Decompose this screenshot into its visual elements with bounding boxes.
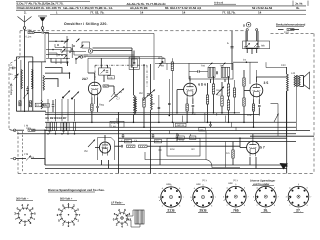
chassis dashed bottom	[18, 173, 314, 175]
boxed label C43	[178, 136, 184, 140]
svg-text:26.: 26.	[263, 208, 268, 212]
vertical x158.9	[158, 95, 160, 122]
wire IFT1 down right	[224, 79, 226, 82]
cap into dashed border	[9, 64, 16, 69]
table row2 text a	[17, 6, 62, 10]
resistor loop R1	[47, 122, 49, 131]
resistor mid	[143, 98, 145, 107]
variable capacitor C7b arrow	[143, 90, 156, 101]
resistor stack b	[221, 96, 223, 106]
switch arrows below tube V1	[62, 91, 79, 100]
socket S4	[158, 184, 184, 213]
grid pot arrow V4	[88, 140, 95, 148]
left resistor r1	[19, 101, 21, 106]
switch arm 6	[81, 45, 84, 48]
svg-text:6: 6	[179, 187, 181, 190]
svg-text:8: 8	[307, 204, 309, 207]
svg-text:3: 3	[253, 195, 255, 198]
svg-text:(1) y: (1) y	[202, 179, 208, 182]
svg-text:6: 6	[244, 187, 246, 190]
label C7 25	[117, 91, 123, 101]
vertical x225.7 drop	[225, 142, 227, 168]
svg-text:LF Føde -: LF Føde -	[111, 202, 123, 205]
tiny label above socket8	[228, 182, 234, 185]
svg-text:2: 2	[162, 204, 164, 207]
wire A1 down	[24, 29, 26, 112]
bus line y136.2	[250, 135, 314, 137]
gram wire 1	[16, 129, 24, 131]
chassis dashed left diagonal	[9, 58, 20, 65]
variable capacitor C7 arrow	[109, 89, 124, 102]
label resistor V5	[226, 152, 229, 155]
switch wire h1	[49, 40, 67, 42]
tube V2 grid wire	[177, 90, 184, 113]
AF component box	[167, 138, 200, 156]
svg-text:2'/m Om: 2'/m Om	[111, 122, 119, 125]
label Beskyttelsesmodstand	[276, 24, 306, 27]
label 43m	[150, 103, 155, 106]
switch arm 4	[64, 55, 68, 60]
svg-text:Reg: Reg	[99, 104, 104, 107]
cap C4 symbol	[52, 100, 55, 112]
cap drop C a	[122, 134, 125, 138]
gram terminal 1	[11, 129, 16, 131]
resistor loop R3b	[64, 122, 66, 131]
stair wire nest 2	[45, 68, 62, 74]
junction dot V2	[176, 112, 194, 114]
bottom caption underline	[48, 191, 95, 193]
wire power into chassis	[247, 49, 257, 53]
IFT1 trimmer 1	[209, 63, 213, 67]
osc nested box outer	[129, 57, 139, 69]
bus drop e	[216, 113, 218, 116]
speaker plug arrow	[280, 163, 289, 170]
wire plate V1 right	[109, 86, 114, 92]
svg-text:6: 6	[58, 207, 60, 211]
svg-text:6 D 6: 6 D 6	[198, 83, 206, 87]
antenna coupling cap C1	[34, 31, 49, 58]
svg-text:14: 14	[258, 10, 262, 14]
svg-text:2: 2	[227, 204, 229, 207]
svg-text:500 Volt +: 500 Volt +	[60, 198, 73, 201]
svg-text:0: 0	[17, 206, 19, 210]
boxed label C7b	[190, 136, 196, 140]
resistor stack e	[233, 80, 235, 113]
bus line y130.5	[45, 130, 310, 132]
cap on x158.9	[158, 107, 161, 108]
switch contact dots	[52, 40, 77, 59]
svg-text:2: 2	[289, 204, 291, 207]
table row2 text d	[165, 6, 202, 10]
labels R1 R2 R3 R4 R7	[45, 116, 78, 120]
svg-text:6: 6	[211, 187, 213, 190]
mains wires down	[247, 31, 257, 41]
wire below tube V1	[92, 104, 98, 122]
switch arrow right area	[274, 114, 279, 123]
chassis dashed top mid	[46, 30, 246, 32]
svg-text:6: 6	[307, 187, 309, 190]
label 1mk boxed	[108, 76, 115, 80]
tube V1 envelope	[88, 80, 101, 97]
switch wire v1	[66, 36, 68, 64]
boxed label 2m Om	[110, 118, 124, 128]
svg-text:3: 3	[223, 195, 225, 198]
svg-text:1: 1	[56, 10, 58, 14]
label LF Fode	[111, 202, 125, 205]
svg-text:1aL-4aL.7b 7.1 25x,50 75,2B 1: 1aL-4aL.7b 7.1 25x,50 75,2B 1L. 14.	[63, 6, 113, 10]
volume pot arrow Reg	[216, 87, 224, 96]
gram wire 2	[16, 156, 31, 161]
mains terminal 1	[246, 29, 248, 31]
svg-text:7 5: 7 5	[102, 146, 107, 150]
bus line y112.8	[45, 112, 240, 114]
vertical wire x133.5	[133, 67, 135, 122]
label Bolgeomk vertical	[10, 82, 13, 95]
svg-text:5: 5	[77, 207, 79, 211]
wires V3 left	[243, 70, 245, 122]
svg-text:7A8: 7A8	[220, 64, 225, 67]
boxed label CL left	[35, 103, 41, 107]
svg-text:R1 R2 R3 R4 R7: R1 R2 R3 R4 R7	[46, 116, 67, 120]
bottom caption main	[48, 188, 105, 192]
svg-text:7: 7	[15, 217, 17, 221]
socket S3 center	[121, 217, 124, 220]
svg-text:Ja. Nr.: Ja. Nr.	[295, 3, 303, 6]
label below V3	[247, 114, 252, 117]
tiny label above socket5	[233, 179, 239, 182]
svg-text:(1) y: (1) y	[233, 179, 239, 182]
svg-text:2: 2	[57, 213, 59, 217]
svg-text:2: 2	[257, 204, 259, 207]
IFT1 primary can	[208, 67, 215, 77]
label A-m	[192, 113, 196, 116]
svg-text:C.: C.	[121, 140, 124, 143]
svg-text:8: 8	[179, 204, 181, 207]
svg-text:L44: L44	[291, 72, 296, 75]
svg-text:0,1m: 0,1m	[29, 156, 34, 159]
IFT1 enclosure box	[189, 63, 233, 79]
wire gang bottom components	[56, 59, 76, 65]
svg-text:25.B: 25.B	[199, 209, 207, 213]
wires pot cluster	[208, 76, 229, 122]
table row3 text c	[140, 10, 144, 14]
svg-text:4M/C44: 4M/C44	[177, 124, 185, 127]
IFT1 input cap	[189, 70, 208, 73]
heater connect tube V4	[102, 160, 109, 169]
svg-text:2M: 2M	[84, 150, 87, 153]
chassis dashed left bottom seg	[17, 132, 19, 174]
antenna A2 symbol	[38, 16, 47, 27]
junction dots buses	[44, 112, 254, 139]
svg-text:7: 7	[79, 213, 81, 217]
label C above coupling b	[134, 140, 138, 143]
label tube V2 type 6D6	[198, 83, 206, 87]
svg-text:1: 1	[127, 223, 129, 227]
stair wire nest 3	[45, 73, 69, 79]
table row2 text c	[130, 6, 148, 10]
svg-text:3: 3	[14, 211, 16, 215]
socket S6 arrow	[224, 197, 229, 202]
switch contact dots mid	[61, 54, 70, 74]
wires R row top	[48, 99, 75, 121]
svg-text:1: 1	[33, 217, 35, 221]
label 4M osc	[161, 61, 164, 68]
socket S4 arrow	[159, 197, 164, 202]
wire to V5 grid	[160, 145, 240, 147]
vertical x118.5 long	[118, 112, 120, 174]
bus drop a	[168, 131, 170, 134]
label C10	[179, 139, 182, 142]
svg-text:3: 3	[286, 195, 288, 198]
coil block vertical wire a	[15, 57, 17, 111]
svg-text:1m: 1m	[226, 152, 229, 155]
wire V5 grid	[240, 138, 247, 147]
vertical wire x107.6	[104, 65, 108, 82]
cap drop from coupling	[159, 146, 162, 165]
bus drop d	[204, 113, 206, 123]
mains terminal 2	[256, 29, 258, 31]
wire top right vertical x258	[257, 31, 259, 46]
osc nested box inner	[131, 59, 137, 67]
boxed label Cm on bus	[199, 128, 205, 132]
cap C4 boxed label	[43, 104, 50, 108]
stair wire nest 4	[45, 79, 58, 87]
svg-text:C: C	[11, 64, 13, 67]
tube V3 envelope	[250, 82, 263, 99]
wire stub box to bus	[179, 134, 191, 142]
left trimmer arrow C2	[14, 74, 19, 81]
svg-text:2 mg: 2 mg	[111, 125, 117, 128]
osc coil L6	[134, 95, 136, 115]
trimmer above C7	[111, 92, 115, 97]
resistor x172	[171, 58, 173, 122]
junction x246 y62	[243, 59, 247, 64]
stair wire nest 1	[51, 58, 68, 66]
coil block top bus 2	[28, 61, 46, 63]
label C above coupling a	[121, 140, 124, 143]
svg-text:7: 7	[183, 196, 185, 199]
wire x144	[143, 64, 145, 127]
label 500 Volt	[60, 198, 77, 201]
table row3 text e	[222, 10, 236, 14]
cap on x232	[230, 47, 233, 48]
chassis dashed inner shield	[22, 131, 24, 172]
svg-text:100n: 100n	[26, 127, 32, 130]
socket S8	[286, 183, 313, 212]
svg-text:9h 10: 9h 10	[158, 57, 165, 60]
dial lamp L1	[88, 49, 92, 53]
osc coil L8	[151, 94, 153, 110]
resistor plug box at S3	[135, 210, 144, 224]
table header row text mid	[127, 2, 167, 6]
chassis dashed left upper	[19, 31, 21, 58]
joining wire caps	[246, 48, 258, 54]
label R32 in box	[192, 148, 196, 151]
wire V4 plate up	[104, 135, 106, 140]
svg-text:C40: C40	[281, 64, 286, 67]
resistor stack a	[206, 95, 208, 104]
tube V1 grid cap wire	[88, 73, 95, 80]
pilot lamp D	[243, 22, 251, 27]
resistor left of V5	[232, 142, 234, 166]
vertical x286.7 long	[286, 91, 288, 174]
svg-text:L8W: L8W	[196, 183, 202, 186]
switch wire h4	[46, 58, 70, 60]
bus line y133.8	[17, 133, 296, 135]
table row3 text f	[258, 10, 262, 14]
svg-text:2m: 2m	[243, 59, 246, 62]
table row2 text e	[252, 6, 300, 10]
svg-text:8: 8	[274, 204, 276, 207]
bus B+ y62	[233, 61, 258, 63]
variable capacitor C7 plates	[114, 95, 117, 96]
svg-text:300 Volt ~: 300 Volt ~	[16, 198, 29, 201]
cap drop C c	[176, 134, 179, 142]
tube V2 envelope	[184, 81, 197, 98]
switch aux box	[82, 42, 90, 48]
antenna A2 terminal	[41, 27, 44, 30]
svg-text:fu: fu	[227, 42, 230, 45]
table top rule (left segment)	[16, 1, 90, 3]
caption right small	[250, 180, 275, 186]
antenna A1 terminal	[23, 27, 26, 30]
boxed label 4M C44	[176, 123, 187, 127]
wave switch arrow left	[23, 93, 29, 99]
label 9h	[158, 57, 165, 60]
stair wire nest 5	[55, 44, 86, 52]
svg-text:21.B: 21.B	[167, 209, 175, 213]
bus line y115.5	[45, 114, 259, 116]
cap on x246	[244, 47, 247, 48]
bus line y127.2	[45, 126, 296, 128]
svg-text:C/m: C/m	[200, 128, 204, 131]
coupling cap Cc	[115, 145, 127, 148]
choke coil L9 tall	[287, 67, 289, 136]
antenna coil L2	[21, 69, 23, 88]
resistor stack d	[227, 100, 229, 110]
resistor stack c	[227, 84, 229, 96]
svg-text:5 7: 5 7	[260, 146, 265, 150]
osc box cap	[133, 63, 135, 64]
mains switch box	[243, 41, 270, 49]
label IFT values	[201, 64, 225, 67]
IFT1 coupling cap mid	[216, 71, 217, 74]
svg-text:6: 6	[32, 206, 34, 210]
heater drops left	[44, 134, 46, 165]
svg-text:C7: C7	[117, 98, 121, 101]
boxed label C8 bus	[155, 140, 162, 144]
vertical x169.3	[168, 79, 170, 116]
bus drop h	[235, 127, 237, 130]
svg-text:Reg: Reg	[217, 89, 222, 92]
grid resistor R8 box	[103, 85, 109, 87]
table row2 text b	[63, 6, 113, 10]
svg-text:7: 7	[248, 195, 250, 198]
svg-text:8: 8	[211, 204, 213, 207]
variable capacitor C7b plates	[147, 94, 150, 95]
svg-text:3: 3	[190, 196, 192, 199]
table row3 text d	[182, 10, 186, 14]
horizontal y103.6 stub	[271, 103, 279, 105]
switch arm 2	[76, 39, 80, 43]
svg-text:6: 6	[274, 187, 276, 190]
vertical wire x150.5	[150, 64, 152, 174]
svg-text:A-b-c-d: A-b-c-d	[214, 2, 223, 5]
label Reg below V1	[99, 104, 104, 107]
mains switch arrows	[246, 43, 265, 48]
resistor left of V3 b	[243, 98, 245, 106]
svg-text:5n: 5n	[10, 73, 13, 76]
table header row text left	[17, 2, 64, 6]
series resistor in antenna lead	[28, 31, 34, 33]
lamp feed line 3	[88, 58, 165, 63]
svg-text:8: 8	[244, 204, 246, 207]
cap on x169.3	[168, 103, 171, 104]
coil block bottom bus	[16, 110, 46, 112]
cap right of CL	[42, 104, 47, 107]
svg-text:Omskifter i Stilling 220.: Omskifter i Stilling 220.	[64, 22, 108, 26]
tube V4 shield box	[98, 138, 115, 161]
bus line y122.3	[45, 121, 296, 123]
vertical wire x101.3	[88, 58, 101, 73]
wire IFT1 down left	[210, 79, 212, 83]
heater connect tube V5	[250, 157, 256, 169]
table divider far right	[307, 1, 309, 6]
gram wire 2b	[31, 159, 45, 165]
chassis dashed right	[313, 34, 315, 174]
svg-text:Beskyttelsesmodstand: Beskyttelsesmodstand	[276, 24, 306, 27]
svg-text:5: 5	[298, 183, 300, 186]
label 50n	[10, 73, 13, 87]
socket S5	[190, 184, 216, 213]
stair wire nest 6	[60, 51, 88, 55]
svg-text:3: 3	[158, 196, 160, 199]
label tube V4 type	[102, 146, 107, 150]
output transformer T1 secondary	[299, 76, 301, 87]
svg-text:A-m: A-m	[192, 113, 196, 116]
stair wire nest 7	[49, 53, 57, 57]
pot resistor	[212, 84, 214, 94]
coil block vertical wire d	[32, 57, 34, 111]
label 2 M	[24, 153, 34, 159]
rounded corner wire	[145, 152, 240, 168]
resistor loop R7	[73, 122, 75, 131]
svg-text:77. 52.7b.: 77. 52.7b.	[222, 10, 236, 14]
heater bus 2	[45, 168, 287, 170]
vertical x278 partial	[277, 104, 279, 137]
table header rule mid-right	[214, 3, 236, 5]
table job-number cell text	[295, 3, 303, 6]
svg-text:0,1m: 0,1m	[26, 36, 32, 39]
cap drop C d	[209, 122, 212, 127]
tube V1 cathode leg wires	[92, 95, 98, 104]
label tube V3 type	[264, 81, 269, 85]
svg-text:Ab.Ab.7b.7b. 75.77.80.2x.2x: Ab.Ab.7b.7b. 75.77.80.2x.2x	[127, 2, 167, 6]
label tube V5 type	[260, 146, 265, 150]
svg-text:2: 2	[194, 204, 196, 207]
switch wire h3	[46, 54, 66, 56]
cathode resistor cluster	[91, 104, 99, 111]
svg-text:7: 7	[215, 196, 217, 199]
tube V3 grid wire	[244, 90, 250, 98]
gang link dash-dot vertical	[94, 65, 96, 80]
label pot V4	[84, 150, 87, 153]
svg-text:80u: 80u	[28, 29, 33, 32]
socket S2 ring	[57, 202, 81, 228]
resistor left of V3 a	[243, 78, 245, 86]
vertical x206 drop	[205, 131, 207, 160]
label 4M	[139, 92, 142, 95]
